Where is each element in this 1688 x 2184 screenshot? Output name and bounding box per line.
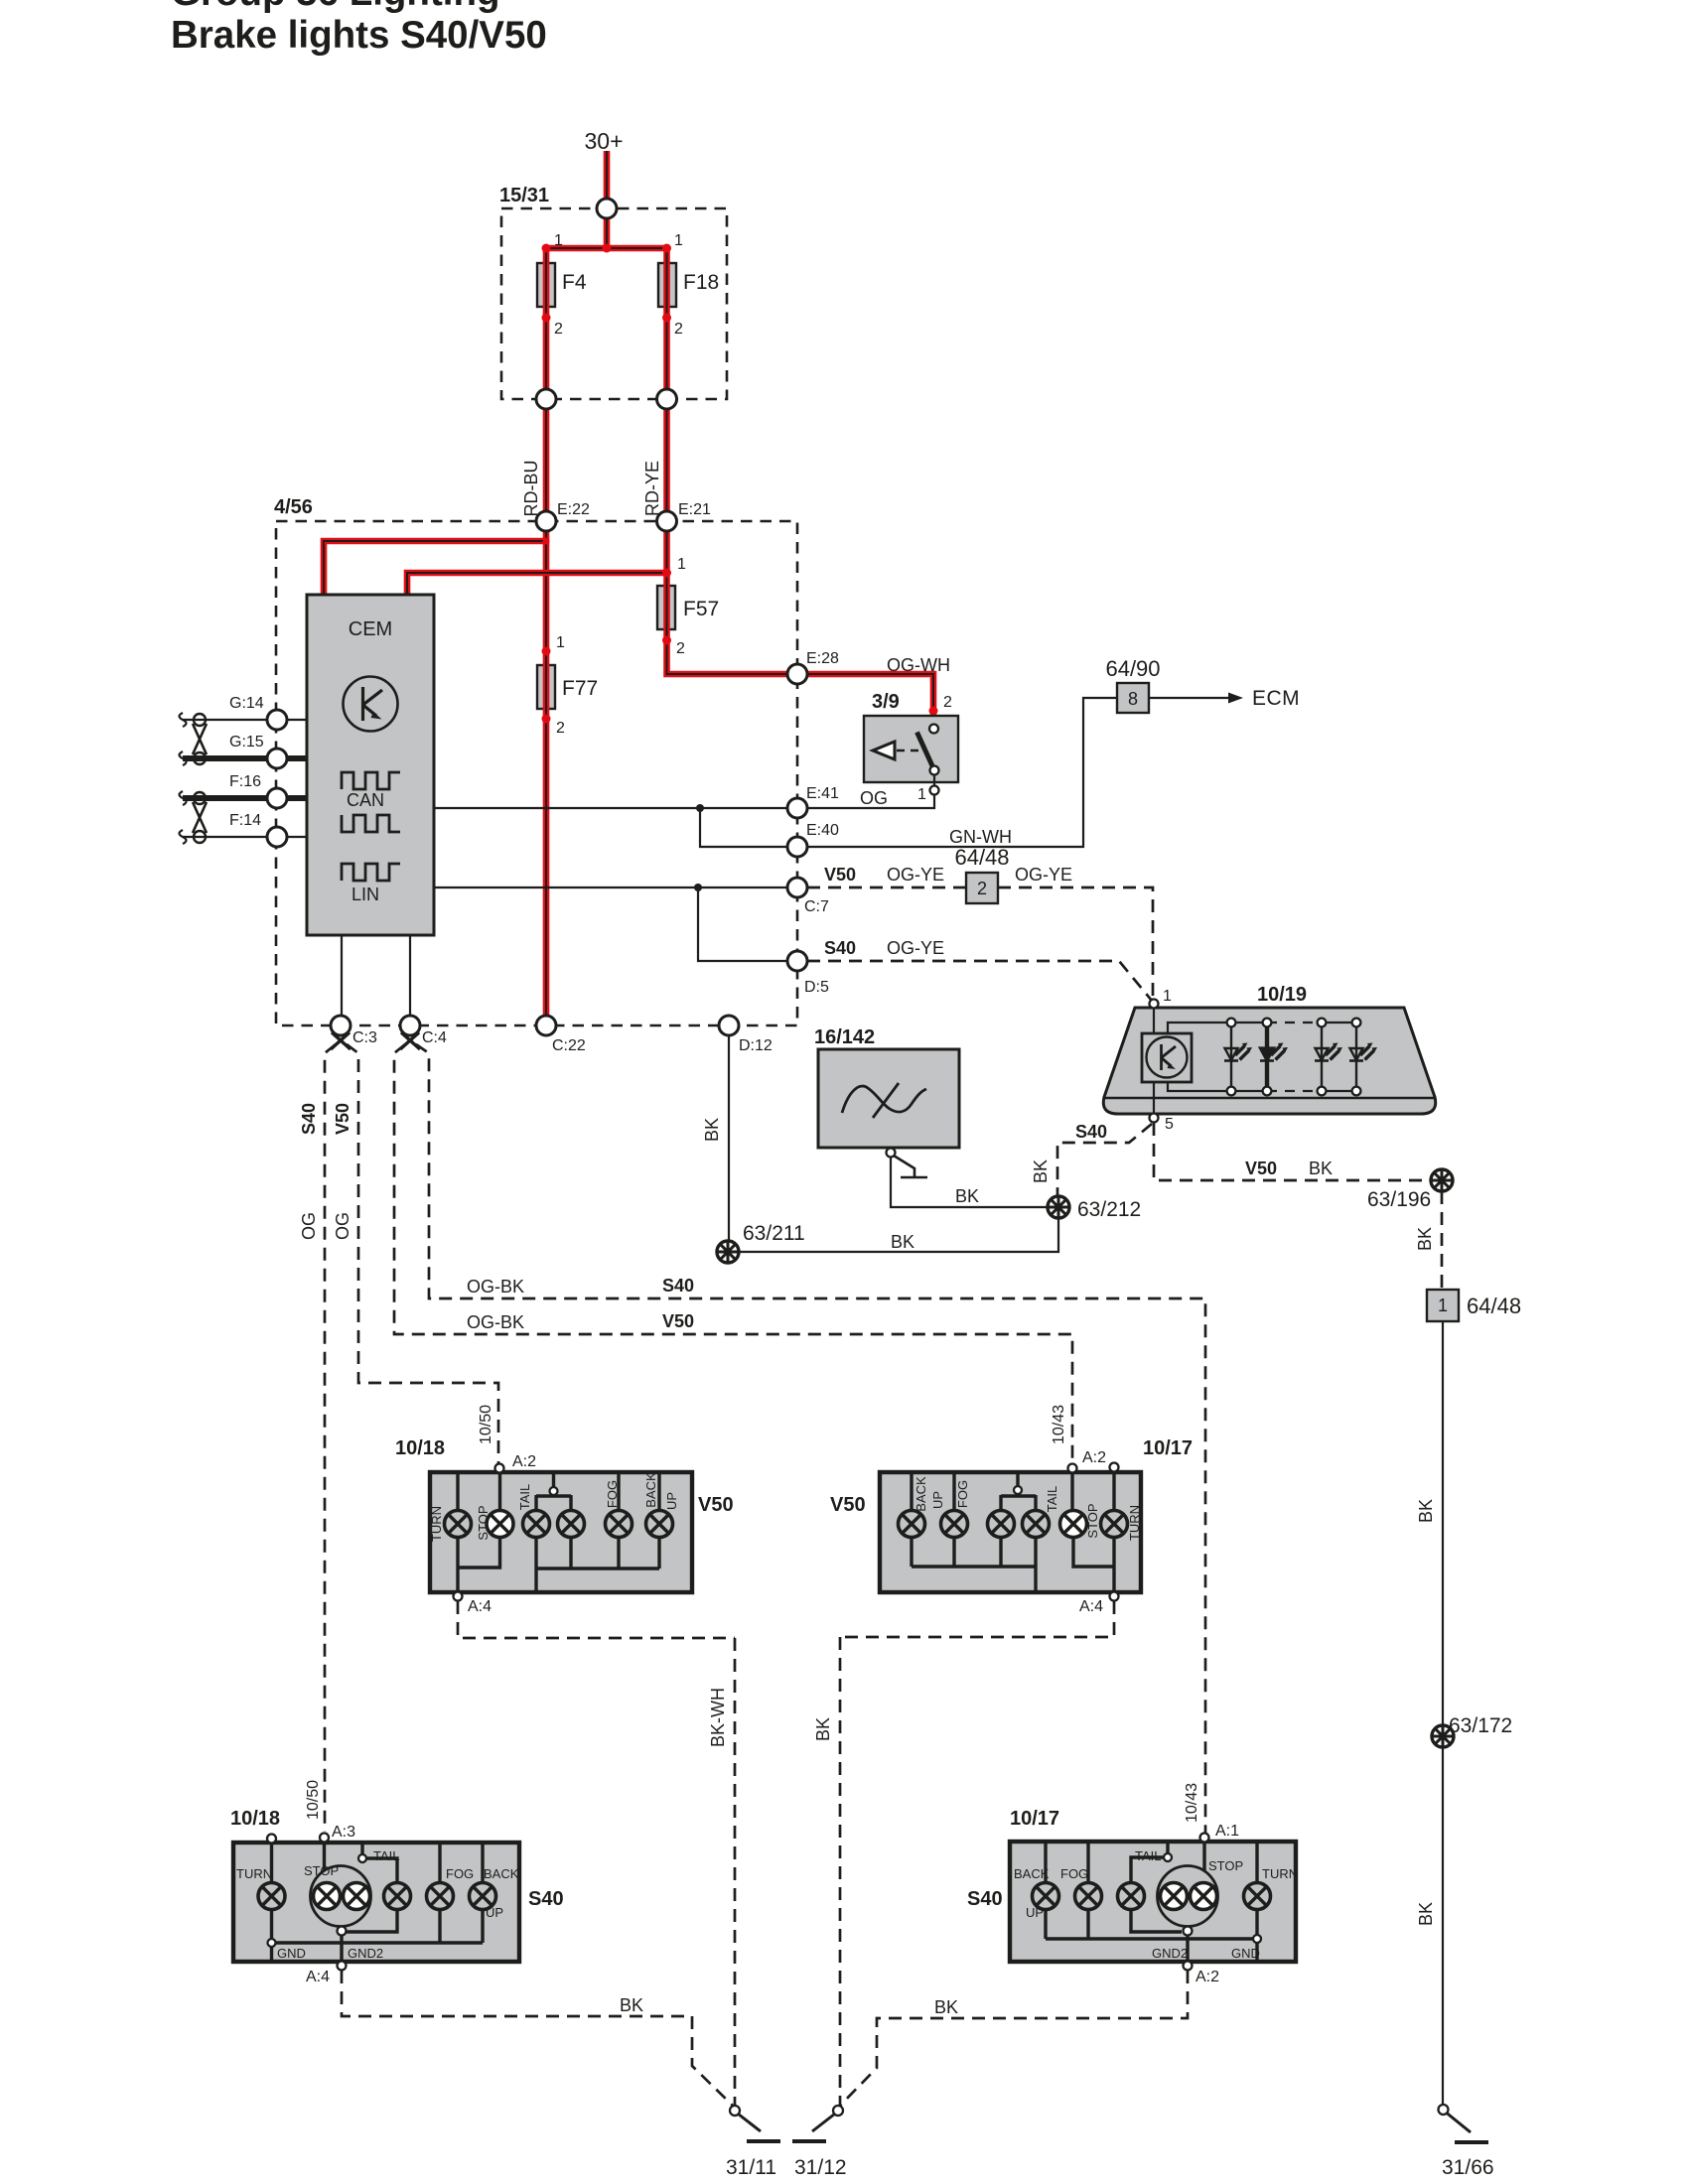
bulb TAIL 1 [523,1511,550,1538]
svg-text:OG-WH: OG-WH [887,655,950,675]
svg-text:GND: GND [1231,1946,1260,1961]
wire 63/211 to 63/212 (BK) [728,1207,1058,1252]
svg-text:LIN: LIN [352,885,379,904]
fuse F4 [537,263,555,307]
10/17 S40 pin A:1 [1200,1834,1209,1843]
svg-text:A:3: A:3 [332,1824,355,1841]
10/17 S40 internal wiring [1044,1842,1047,1883]
svg-text:F57: F57 [683,598,719,620]
svg-text:64/90: 64/90 [1105,656,1160,681]
svg-text:UP: UP [1026,1905,1044,1920]
10/17 S40 tail pin [1164,1853,1172,1861]
LED 2 (stop function, bold) [1260,1023,1288,1091]
svg-text:FOG: FOG [1060,1866,1088,1881]
wire D:5 OG-YE S40 (dashed) [807,961,1152,1001]
svg-text:31/12: 31/12 [794,2156,847,2179]
svg-text:BK: BK [1309,1159,1333,1178]
svg-text:BACK: BACK [914,1476,928,1512]
connector D:12 [719,1016,739,1035]
svg-text:BK: BK [1031,1160,1051,1183]
svg-text:OG: OG [333,1212,352,1240]
svg-text:3/9: 3/9 [872,691,900,713]
pin 1 of F57 [662,569,671,578]
16/142 crossed sine symbol [842,1086,926,1113]
10/17 S40 GND2 pin [1184,1927,1193,1936]
svg-text:63/211: 63/211 [743,1222,805,1245]
svg-text:A:4: A:4 [306,1969,330,1985]
pin 2 of F18 [662,314,671,323]
10/17 V50 turn pin [1110,1463,1119,1472]
svg-text:A:2: A:2 [1196,1969,1219,1985]
svg-text:A:4: A:4 [468,1598,492,1615]
twisted pair loops and crossing F:16/F:14 [180,791,208,844]
svg-text:S40: S40 [1075,1122,1107,1142]
svg-text:BK: BK [620,1995,643,2015]
svg-text:2: 2 [977,879,987,898]
10/18 V50 internal wiring [456,1472,459,1511]
svg-text:STOP: STOP [476,1505,491,1540]
svg-text:GND2: GND2 [1152,1946,1188,1961]
pin 1 of F77 [542,647,551,656]
wire 30+ feed (red) [604,151,611,248]
connector D:5 [787,951,807,971]
dashed box 4/56 CEM [276,521,797,1025]
wire G:14 twisted pair upper [183,719,307,721]
switch 3/9 brake light switch [864,716,958,782]
CEM clock/ignition K symbol [344,677,398,732]
svg-text:64/48: 64/48 [954,845,1009,870]
10/17 S40 pin A:2 [1184,1962,1193,1971]
connector C:22 (red wire end) [536,1016,556,1035]
wire 10/17 S40 A:2 to ground 31/12 (dashed BK) [839,1971,1188,2107]
connector E:28 [787,664,807,684]
svg-text:CEM: CEM [349,618,392,640]
svg-text:4/56: 4/56 [274,496,313,518]
bulb TURN [1244,1883,1271,1910]
pin 2 of F57 [662,636,671,645]
wire CAN output to E:41 [434,807,797,809]
svg-text:G:15: G:15 [229,734,264,751]
wire 63/196 to 64/48 pin1 (dashed BK) [1441,1191,1444,1290]
svg-text:F:16: F:16 [229,773,261,790]
pin 2 of F77 [542,715,551,724]
bulb TAIL [384,1883,411,1910]
svg-text:E:40: E:40 [806,822,839,839]
svg-text:1: 1 [677,556,686,573]
svg-text:STOP: STOP [1085,1503,1100,1538]
svg-text:D:12: D:12 [739,1037,773,1054]
wire G:15 twisted pair lower (thick) [183,755,307,761]
fuse F77 [537,665,555,709]
fuse F18 [658,263,676,307]
svg-text:A:4: A:4 [1079,1598,1103,1615]
connector 64/48 pin 2 [966,873,998,903]
svg-text:F4: F4 [562,271,587,294]
bulb TURN [445,1511,472,1538]
bulb TAIL 1 [988,1511,1015,1538]
svg-text:F18: F18 [683,271,719,294]
STOP double filament bulb [311,1866,371,1927]
svg-text:Group 36 Lighting: Group 36 Lighting [171,0,500,14]
3/9 pin 1 [930,786,939,795]
bulb BACKUP [1033,1883,1059,1910]
svg-text:1: 1 [1163,988,1172,1005]
svg-text:V50: V50 [698,1494,734,1516]
connector circle below F18 [657,389,677,409]
svg-text:OG-BK: OG-BK [467,1312,524,1332]
connector C:4 with twisted-pair split [400,1016,420,1035]
svg-text:10/43: 10/43 [1051,1405,1067,1444]
wire branch to E:40 [700,808,797,847]
LED 4 [1349,1023,1377,1091]
connector circle below F4 [536,389,556,409]
svg-text:BK: BK [891,1232,914,1252]
wire branch to D:5 [698,887,797,961]
svg-text:BK-WH: BK-WH [708,1688,728,1747]
svg-text:S40: S40 [528,1888,564,1910]
wire S40 branch from C:3 (dashed OG) [325,1044,336,1832]
connector circle 15/31 top [597,199,617,218]
svg-text:BK: BK [813,1717,833,1741]
wire F4 to C:22 via E:22 and F77 (red) [543,248,550,1025]
connector 64/48 pin 1 [1427,1290,1459,1321]
bulb TAIL 2 [1023,1511,1050,1538]
svg-text:TURN: TURN [1127,1505,1142,1541]
10/18 S40 internal wiring [270,1843,273,1883]
pin 2 of 3/9 (red dot) [929,707,938,716]
10/18 S40 pin A:4 [338,1962,347,1971]
svg-text:OG-YE: OG-YE [887,938,944,958]
wire E:40 to 64/90 (GN-WH) [797,698,1117,847]
connector G:14 [267,710,287,730]
wire CEM supply feed 2 (red) [407,573,667,596]
10/19 pin 5 [1150,1114,1159,1123]
svg-text:BK: BK [702,1118,722,1142]
svg-text:8: 8 [1128,689,1138,709]
10/18 S40 pin A:3 [320,1834,329,1843]
svg-text:63/196: 63/196 [1367,1188,1431,1211]
svg-text:UP: UP [930,1491,945,1509]
LED 1 [1224,1023,1252,1091]
wire C:7 OG-YE V50 (dashed) [807,887,966,889]
component 16/142 sensor [818,1049,959,1148]
10/18 S40 tail pin [358,1854,366,1862]
svg-text:V50: V50 [1245,1159,1277,1178]
svg-text:V50: V50 [830,1494,866,1516]
10/17 V50 tail bracket pin [1014,1486,1022,1494]
svg-text:1: 1 [917,786,926,803]
16/142 switch to ground [887,1149,896,1158]
10/17 V50 pin A:2 [1068,1464,1077,1473]
svg-text:31/11: 31/11 [726,2156,776,2179]
svg-text:2: 2 [674,321,683,338]
fuse F57 [657,586,675,629]
svg-text:S40: S40 [824,938,856,958]
svg-text:F:14: F:14 [229,812,261,829]
svg-text:G:14: G:14 [229,695,264,712]
wire 10/18 V50 A:4 to ground 31/11 (dashed BK-WH) [458,1601,735,1638]
connector 64/90 pin 8 [1117,683,1149,713]
bulb STOP (highlighted) [1060,1511,1087,1538]
svg-text:OG-YE: OG-YE [1015,865,1072,885]
wire 64/90 to ECM with arrow [1149,697,1231,699]
wire CEM bottom to C:3 [341,935,343,1025]
bulb STOP (highlighted) [487,1511,513,1538]
bulb TURN [258,1883,285,1910]
svg-text:V50: V50 [824,865,856,885]
svg-text:OG: OG [299,1212,319,1240]
3/9 bottom terminal [930,766,939,775]
svg-text:UP: UP [664,1492,679,1510]
svg-text:CAN: CAN [347,790,384,810]
svg-text:E:21: E:21 [678,501,711,518]
wire fuse bus (red) [546,245,667,252]
svg-text:RD-YE: RD-YE [642,461,662,516]
10/18 V50 pin A:4 [454,1592,463,1601]
CEM control module box [307,595,434,935]
svg-text:C:22: C:22 [552,1037,586,1054]
svg-text:1: 1 [554,232,563,249]
svg-text:10/19: 10/19 [1257,984,1307,1006]
svg-text:BK: BK [1415,1227,1435,1251]
svg-text:2: 2 [554,321,563,338]
svg-text:1: 1 [556,634,565,651]
svg-text:A:2: A:2 [512,1453,536,1470]
svg-text:TAIL: TAIL [373,1848,400,1863]
svg-text:UP: UP [486,1905,503,1920]
splice 63/196 [1431,1169,1453,1191]
svg-text:OG: OG [860,788,888,808]
wire 3/9 pin1 to E:41 (OG) [797,774,934,808]
svg-text:TURN: TURN [429,1506,444,1542]
svg-text:63/212: 63/212 [1077,1198,1141,1221]
svg-text:TURN: TURN [236,1866,272,1881]
svg-text:E:22: E:22 [557,501,590,518]
splice 63/212 [1048,1196,1069,1218]
connector C:7 [787,878,807,897]
3/9 top terminal [929,725,938,734]
wire 10/17 V50 A:4 to ground 31/12 (dashed BK) [840,1601,1114,1637]
bulb BACKUP [646,1511,673,1538]
svg-text:GN-WH: GN-WH [949,827,1012,847]
10/19 internal K box [1153,1008,1155,1033]
10/17 V50 pin A:4 [1110,1592,1119,1601]
junction dot 30+ bus [603,244,612,253]
svg-text:S40: S40 [662,1276,694,1296]
10/19 internal bottom rail [1168,1082,1267,1091]
bulb FOG [606,1511,633,1538]
10/18 S40 GND2 pin [338,1927,347,1936]
svg-text:C:7: C:7 [804,898,829,915]
svg-text:10/17: 10/17 [1010,1808,1059,1830]
wire D:12 to splice 63/211 (BK) [728,1035,730,1252]
svg-text:FOG: FOG [605,1480,620,1508]
wire V50 branch from C:4 (dashed OG-BK) [394,1044,1072,1463]
svg-text:1: 1 [1438,1296,1448,1315]
wire 10/18 S40 A:4 to ground 31/11 (dashed BK) [342,1971,734,2107]
bulb TURN [1101,1511,1128,1538]
svg-text:TAIL: TAIL [1045,1486,1059,1513]
svg-text:BK: BK [1416,1499,1436,1523]
svg-text:D:5: D:5 [804,979,829,996]
svg-text:BACK: BACK [643,1472,658,1508]
connector G:15 [267,749,287,768]
10/18 V50 pin A:2 [495,1464,504,1473]
STOP double filament bulb [1158,1866,1218,1927]
bulb FOG [941,1511,968,1538]
wire F:14 twisted pair lower [183,836,307,838]
splice 63/172 [1432,1725,1454,1747]
CEM LIN symbol [342,864,400,904]
connector E:41 [787,798,807,818]
wire F18 to F57 via E:21 (red) [663,248,670,640]
svg-text:ECM: ECM [1252,687,1300,710]
junction red feed 1 [543,538,550,545]
svg-text:2: 2 [556,720,565,737]
wire pin5 S40 to 63/212 (dashed BK) [1057,1124,1152,1196]
bulb TAIL [1118,1883,1145,1910]
svg-text:OG-BK: OG-BK [467,1277,524,1297]
wire 16/142 to 63/212 (BK) [891,1158,1058,1207]
wire 64/48 to ground 31/66 (BK) [1442,1321,1444,2106]
10/18 S40 turn pin [267,1835,276,1843]
wire CEM bottom to C:4 [409,935,411,1025]
svg-text:1: 1 [674,232,683,249]
svg-text:FOG: FOG [446,1866,474,1881]
connector F:16 [267,788,287,808]
svg-text:E:41: E:41 [806,785,839,802]
svg-text:BK: BK [1416,1902,1436,1926]
svg-text:S40: S40 [299,1103,319,1135]
bulb TAIL 2 [558,1511,585,1538]
svg-text:10/43: 10/43 [1184,1783,1200,1823]
connector E:21 [657,511,677,531]
splice 63/211 [717,1241,739,1263]
wire F:16 twisted pair upper (thick) [183,795,307,801]
svg-text:30+: 30+ [584,128,623,154]
CEM CAN symbol [342,772,400,832]
bulb FOG [1075,1883,1102,1910]
ground 31/12 [792,2106,843,2141]
svg-text:S40: S40 [967,1888,1003,1910]
svg-text:BK: BK [934,1997,958,2017]
svg-text:BK: BK [955,1186,979,1206]
10/19 internal top rail [1168,1023,1267,1033]
connector E:40 [787,837,807,857]
svg-text:10/50: 10/50 [305,1780,322,1820]
bulb BACKUP [899,1511,925,1538]
svg-text:V50: V50 [662,1311,694,1331]
junction dot CAN branch [696,804,704,812]
svg-text:10/50: 10/50 [478,1405,494,1444]
wire CEM supply feed 1 (red) [324,541,546,596]
wire V50 branch from C:3 (dashed OG) [347,1044,498,1463]
svg-text:TURN: TURN [1262,1866,1298,1881]
connector E:22 [536,511,556,531]
wire pin5 V50 to 63/196 (dashed BK) [1154,1123,1431,1180]
svg-text:5: 5 [1165,1116,1174,1133]
svg-text:E:28: E:28 [806,650,839,667]
10/18 V50 tail bracket pin [550,1487,558,1495]
svg-text:2: 2 [943,694,952,711]
3/9 switch blade [917,733,935,771]
connector C:3 with twisted-pair split [331,1016,351,1035]
pin 2 of F4 [542,314,551,323]
wire F57 to 3/9 via E:28 (red, OG-WH) [667,640,934,726]
svg-text:STOP: STOP [304,1863,339,1878]
svg-text:C:3: C:3 [352,1029,377,1046]
svg-text:V50: V50 [333,1103,352,1135]
svg-text:F77: F77 [562,677,598,700]
10/17 V50 internal wiring [910,1472,913,1511]
svg-text:STOP: STOP [1208,1858,1243,1873]
svg-text:10/18: 10/18 [395,1437,445,1459]
svg-text:TAIL: TAIL [517,1484,532,1511]
svg-text:16/142: 16/142 [814,1026,875,1048]
svg-text:Brake lights S40/V50: Brake lights S40/V50 [171,14,547,57]
svg-text:BACK: BACK [1014,1866,1050,1881]
ground 31/66 [1439,2105,1489,2142]
pin 1 of F4 [542,244,551,253]
svg-text:31/66: 31/66 [1442,2156,1494,2179]
twisted pair loops and crossing G:14/G:15 [180,713,208,765]
svg-text:OG-YE: OG-YE [887,865,944,885]
10/17 S40 GND pin [1253,1935,1261,1943]
svg-text:FOG: FOG [955,1480,970,1508]
svg-text:A:1: A:1 [1215,1823,1239,1840]
svg-text:2: 2 [676,640,685,657]
bulb FOG [427,1883,454,1910]
pin 1 of F18 [662,244,671,253]
svg-text:GND2: GND2 [348,1946,383,1961]
svg-text:GND: GND [277,1946,306,1961]
svg-text:RD-BU: RD-BU [521,461,541,517]
LED 3 [1315,1023,1342,1091]
svg-text:TAIL: TAIL [1135,1848,1162,1863]
svg-text:63/172: 63/172 [1449,1714,1512,1737]
wire LIN output to C:7 [434,887,797,888]
wire S40 branch from C:4 (dashed OG-BK) [416,1044,1205,1834]
svg-text:10/18: 10/18 [230,1808,280,1830]
dashed box 15/31 fuse holder [501,208,727,399]
10/19 pin 1 [1150,1000,1159,1009]
svg-text:BACK: BACK [484,1866,519,1881]
svg-text:15/31: 15/31 [499,185,549,206]
LED terminal pins [1227,1019,1236,1027]
svg-text:C:4: C:4 [422,1029,447,1046]
svg-text:A:2: A:2 [1082,1449,1106,1466]
svg-text:64/48: 64/48 [1467,1294,1521,1318]
3/9 actuation arrow [873,742,895,759]
bulb BACKUP [470,1883,496,1910]
ground 31/11 [730,2106,780,2141]
wire 64/48 pin2 to 10/19 pin1 (dashed OG-YE) [998,887,1153,999]
10/19 K box to pin 5 wire [1153,1082,1155,1114]
svg-text:10/17: 10/17 [1143,1437,1193,1459]
junction dot LIN branch [694,884,702,891]
10/18 S40 GND pin [268,1939,276,1947]
connector F:14 [267,827,287,847]
